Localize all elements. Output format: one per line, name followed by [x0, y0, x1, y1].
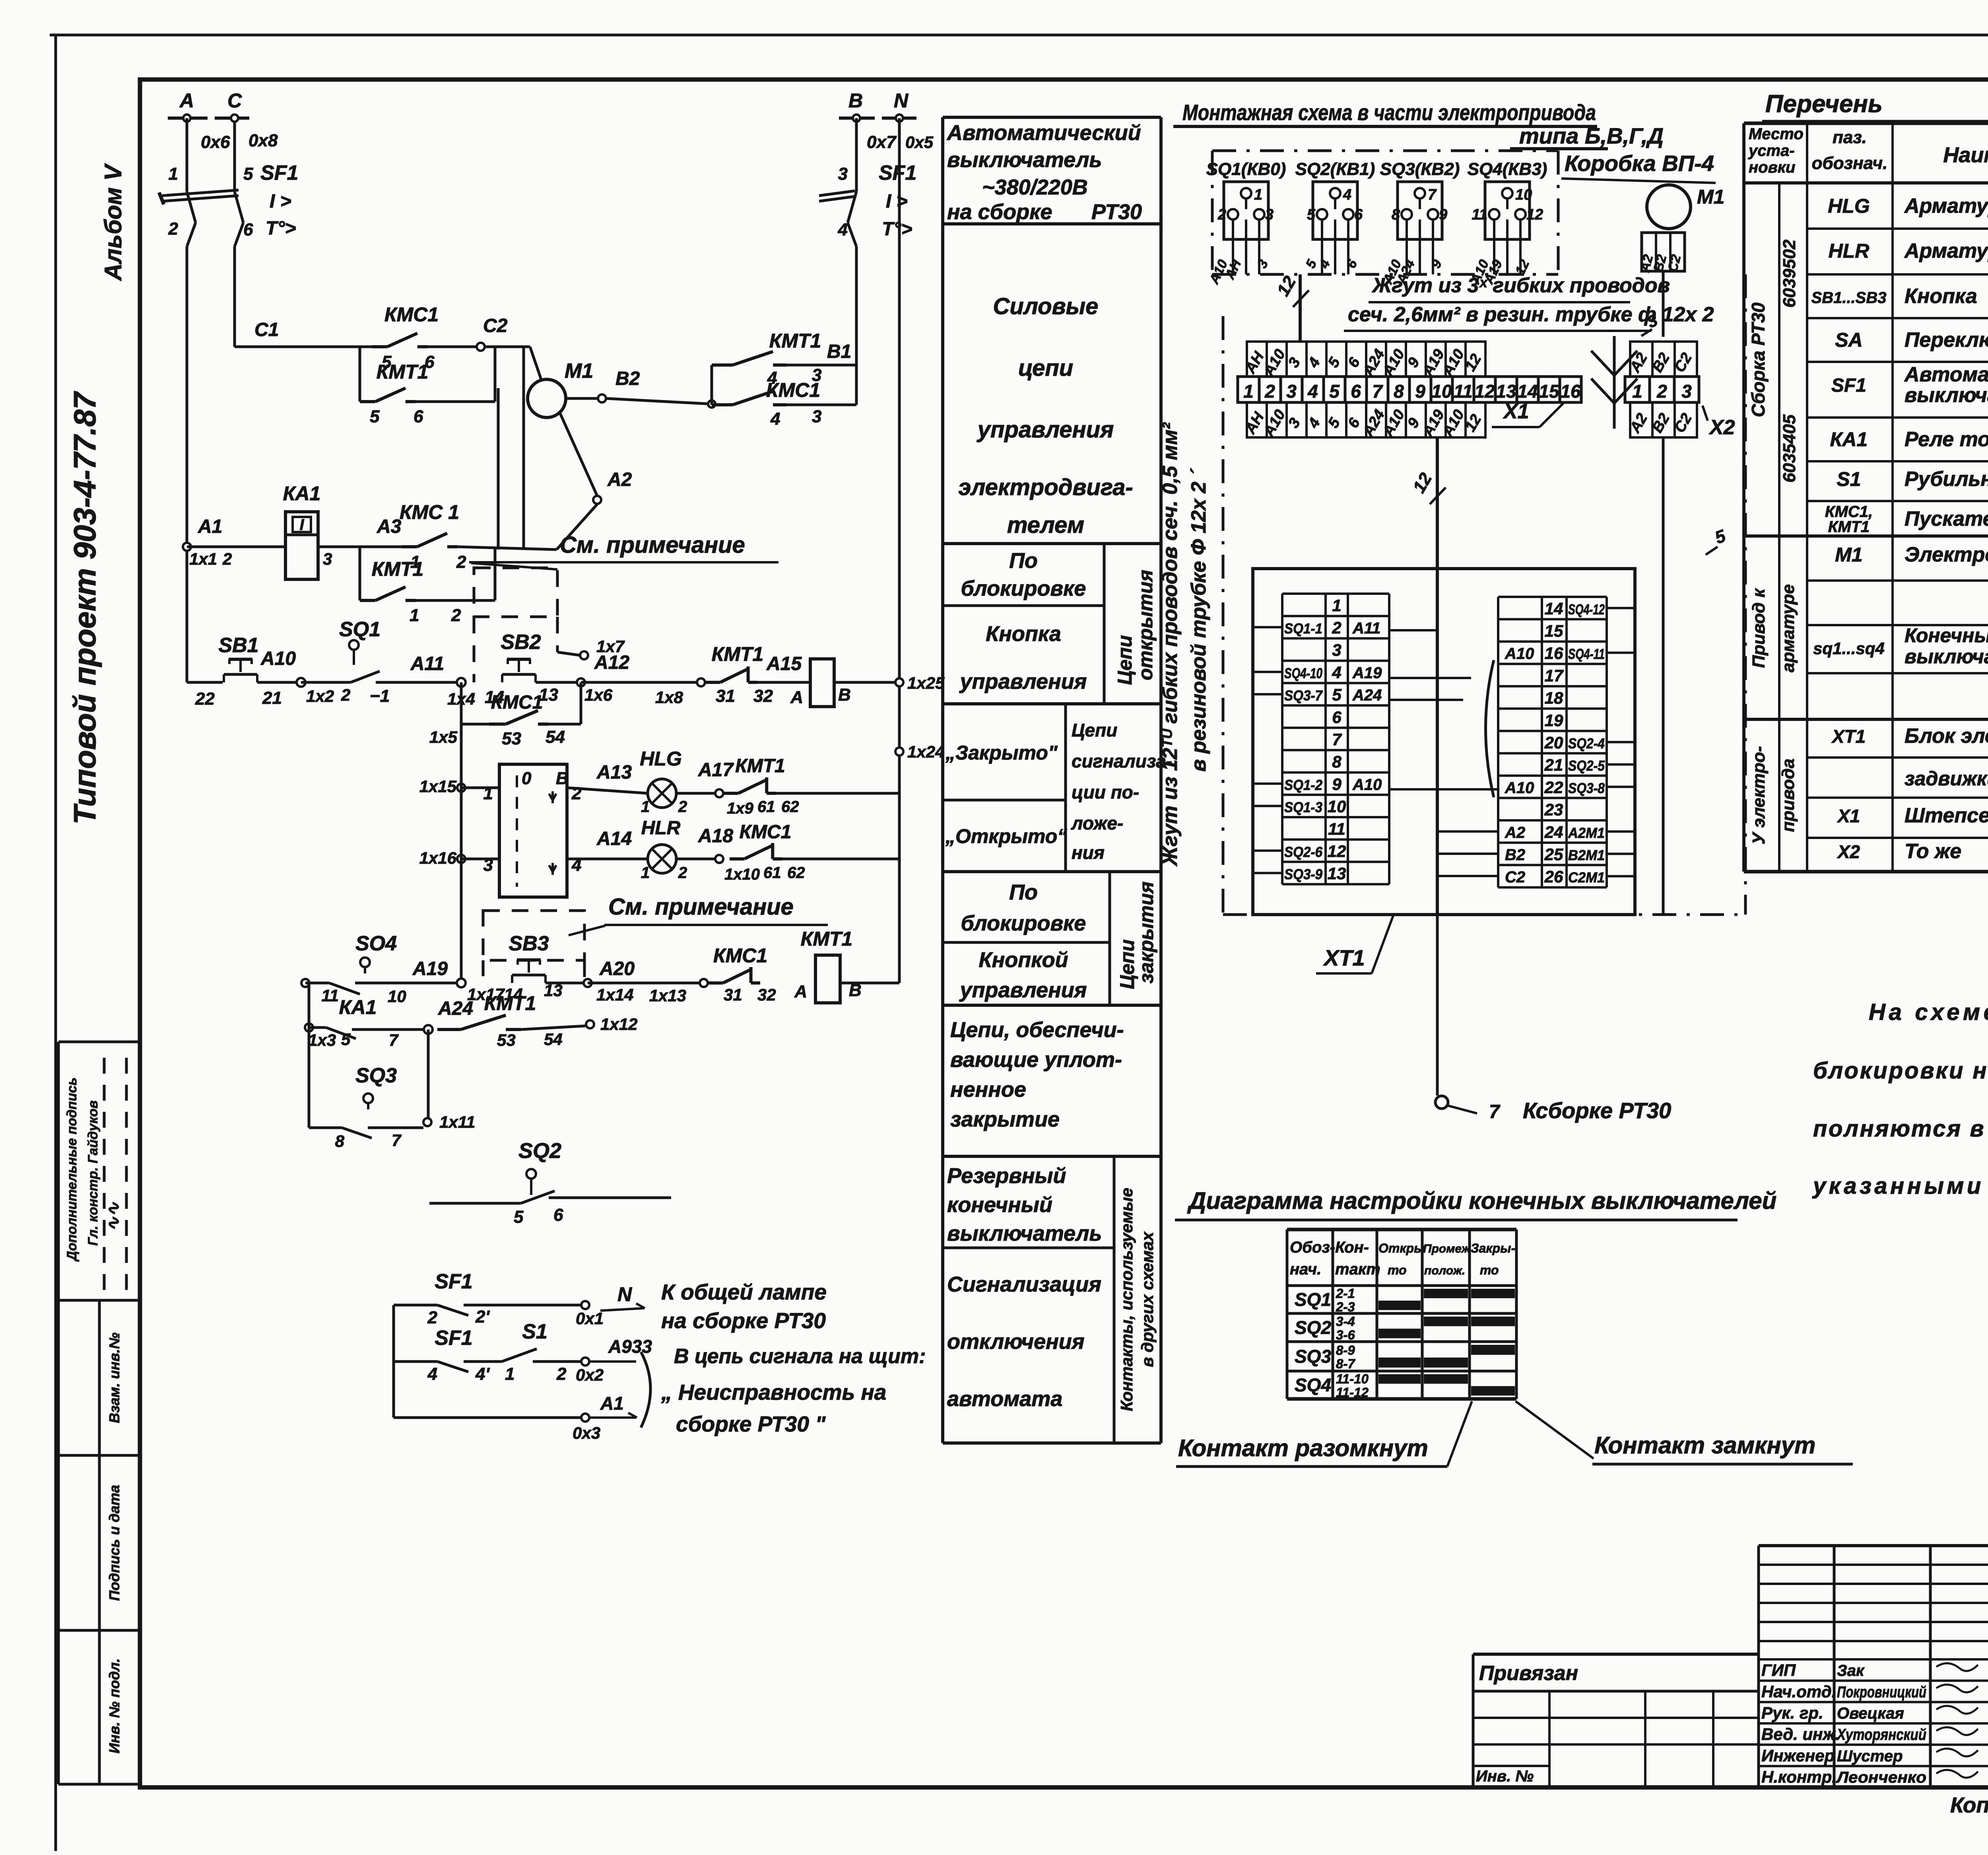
svg-text:6: 6 — [1351, 381, 1361, 402]
svg-text:новки: новки — [1749, 159, 1795, 176]
svg-text:I >: I > — [270, 191, 291, 212]
svg-text:2-3: 2-3 — [1336, 1299, 1355, 1314]
svg-text:2: 2 — [456, 552, 466, 572]
svg-text:Копировал Перелюбская: Копировал Перелюбская — [1950, 1793, 1988, 1817]
svg-text:„Закрыто": „Закрыто" — [945, 742, 1058, 764]
svg-text:уста-: уста- — [1748, 142, 1795, 159]
svg-text:задвижки: задвижки — [1905, 767, 1988, 790]
svg-text:2: 2 — [168, 219, 179, 239]
svg-text:А19: А19 — [412, 958, 448, 979]
svg-text:32: 32 — [757, 985, 776, 1004]
svg-text:8-7: 8-7 — [1336, 1356, 1355, 1371]
svg-text:2: 2 — [341, 686, 350, 704]
svg-text:в резиновой трубке Ф 12: в резиновой трубке Ф 12x 2 ´ — [1187, 468, 1210, 772]
svg-text:сигнализа-: сигнализа- — [1072, 751, 1172, 771]
svg-text:I: I — [299, 516, 304, 534]
svg-text:Электродвигатель: Электродвигатель — [1905, 543, 1988, 566]
svg-text:6: 6 — [1332, 708, 1342, 726]
svg-text:22: 22 — [1544, 778, 1563, 796]
svg-text:ции по-: ции по- — [1072, 782, 1139, 802]
svg-text:блокировке: блокировке — [961, 577, 1086, 600]
svg-text:2: 2 — [1264, 381, 1275, 402]
svg-text:0x8: 0x8 — [248, 131, 278, 150]
svg-text:„Открыто“: „Открыто“ — [945, 825, 1067, 847]
svg-text:1x2: 1x2 — [306, 687, 334, 705]
svg-text:Привод к: Привод к — [1749, 588, 1769, 668]
svg-text:SQ4-11: SQ4-11 — [1568, 646, 1605, 662]
svg-text:В2: В2 — [615, 368, 640, 389]
svg-text:такт: такт — [1335, 1261, 1380, 1278]
svg-text:1: 1 — [410, 606, 419, 625]
svg-text:SВ1...SВ3: SВ1...SВ3 — [1811, 289, 1887, 307]
svg-text:I >: I > — [886, 191, 908, 212]
svg-text:М1: М1 — [1835, 544, 1862, 566]
svg-text:конечный: конечный — [947, 1193, 1052, 1217]
svg-text:А19: А19 — [1352, 664, 1382, 682]
svg-text:1: 1 — [505, 1364, 514, 1384]
svg-text:SF1: SF1 — [1831, 375, 1866, 396]
svg-text:SQ2-6: SQ2-6 — [1284, 844, 1323, 860]
svg-text:А2: А2 — [607, 469, 632, 490]
svg-text:электродвига-: электродвига- — [958, 474, 1133, 500]
svg-text:Переключатель: Переключатель — [1905, 328, 1988, 352]
svg-text:11: 11 — [321, 986, 339, 1005]
svg-text:2: 2 — [1332, 618, 1341, 637]
svg-text:9: 9 — [1439, 206, 1447, 223]
svg-text:ХТ1: ХТ1 — [1831, 726, 1866, 747]
svg-text:2': 2' — [475, 1307, 490, 1327]
svg-text:3: 3 — [1332, 641, 1341, 659]
svg-text:1x10: 1x10 — [724, 866, 760, 883]
svg-text:0x3: 0x3 — [573, 1424, 600, 1442]
svg-text:В: В — [838, 685, 851, 705]
svg-text:0x7: 0x7 — [867, 132, 897, 152]
svg-text:13: 13 — [1496, 381, 1516, 402]
svg-text:S1: S1 — [522, 1320, 547, 1343]
svg-text:SQ4-12: SQ4-12 — [1568, 601, 1605, 618]
svg-text:12: 12 — [1328, 842, 1346, 860]
svg-text:S1: S1 — [1837, 468, 1861, 490]
svg-text:SF1: SF1 — [435, 1270, 472, 1293]
svg-text:А: А — [790, 688, 803, 707]
svg-text:В: В — [848, 89, 863, 112]
svg-text:А11: А11 — [410, 653, 445, 674]
svg-text:Реле токовое: Реле токовое — [1905, 428, 1988, 451]
svg-text:Коробка ВП-4: Коробка ВП-4 — [1565, 151, 1714, 176]
svg-text:8: 8 — [335, 1132, 345, 1150]
svg-text:4: 4 — [1307, 381, 1318, 402]
svg-text:SF1: SF1 — [260, 161, 298, 185]
svg-text:КМС1: КМС1 — [740, 822, 792, 843]
svg-text:К общей лампе: К общей лампе — [661, 1280, 827, 1304]
svg-text:11-12: 11-12 — [1336, 1385, 1369, 1400]
svg-text:Леонченко: Леонченко — [1836, 1769, 1926, 1786]
svg-text:А24: А24 — [1352, 687, 1382, 704]
svg-text:HLG: HLG — [640, 748, 682, 770]
svg-text:3: 3 — [812, 407, 821, 426]
svg-text:С2: С2 — [1505, 868, 1525, 886]
svg-text:SQ3-9: SQ3-9 — [1284, 866, 1322, 882]
svg-text:31: 31 — [724, 985, 742, 1004]
svg-text:Кнопкой: Кнопкой — [978, 948, 1068, 972]
svg-text:SF1: SF1 — [435, 1327, 472, 1350]
svg-text:HLR: HLR — [641, 818, 681, 839]
svg-text:КМТ1: КМТ1 — [372, 558, 424, 580]
svg-text:Инв. № подл.: Инв. № подл. — [106, 1658, 122, 1753]
svg-text:Обоз-: Обоз- — [1290, 1239, 1335, 1256]
svg-text:КМТ1: КМТ1 — [801, 928, 853, 950]
svg-text:полняются в соответствии со: полняются в соответствии со схемами блок… — [1813, 1116, 1988, 1142]
svg-text:1x12: 1x12 — [600, 1015, 637, 1033]
svg-text:КА1: КА1 — [339, 996, 377, 1018]
svg-text:2: 2 — [556, 1364, 567, 1384]
svg-text:Арматура: Арматура — [1904, 194, 1988, 218]
svg-text:выключатель: выключатель — [1905, 384, 1988, 407]
svg-text:А2М1: А2М1 — [1568, 825, 1605, 841]
svg-text:КМТ1: КМТ1 — [377, 361, 429, 383]
svg-text:КМС1: КМС1 — [713, 944, 767, 967]
svg-text:В: В — [556, 769, 569, 788]
svg-text:Арматура: Арматура — [1904, 239, 1988, 262]
svg-text:Х1: Х1 — [1837, 806, 1860, 826]
svg-text:НLR: НLR — [1829, 240, 1870, 262]
svg-text:1x7: 1x7 — [596, 637, 625, 656]
svg-text:2: 2 — [571, 784, 582, 803]
svg-text:А14: А14 — [596, 828, 632, 849]
svg-text:5: 5 — [243, 164, 253, 184]
svg-text:6039502: 6039502 — [1780, 239, 1799, 308]
svg-text:привода: привода — [1778, 759, 1798, 832]
svg-text:X2: X2 — [1708, 416, 1735, 439]
svg-text:53: 53 — [497, 1031, 516, 1049]
svg-text:1x8: 1x8 — [655, 688, 683, 707]
svg-text:указанными в перечне запорн: указанными в перечне запорной арматуры. — [1812, 1173, 1988, 1199]
svg-text:КМТ1: КМТ1 — [712, 643, 764, 665]
svg-text:Кнопка: Кнопка — [1905, 285, 1977, 308]
svg-text:См. примечание: См. примечание — [560, 532, 745, 558]
svg-text:20: 20 — [1544, 733, 1563, 752]
svg-text:~380/220В: ~380/220В — [982, 175, 1088, 199]
svg-text:54: 54 — [546, 727, 565, 747]
svg-text:на сборке: на сборке — [947, 200, 1052, 224]
svg-text:7: 7 — [1332, 730, 1342, 749]
svg-text:2: 2 — [678, 864, 687, 882]
svg-text:ния: ния — [1072, 842, 1105, 863]
svg-text:3-6: 3-6 — [1336, 1328, 1355, 1342]
svg-text:11: 11 — [1328, 820, 1345, 838]
svg-text:1x3: 1x3 — [308, 1031, 336, 1049]
svg-text:3-4: 3-4 — [1336, 1314, 1355, 1329]
svg-text:7: 7 — [1428, 186, 1437, 203]
svg-text:то: то — [1388, 1263, 1407, 1277]
svg-text:Диаграмма настройки: Диаграмма настройки конечных выключателе… — [1187, 1187, 1776, 1214]
svg-text:4: 4 — [1332, 663, 1341, 682]
svg-text:С1: С1 — [254, 319, 279, 340]
svg-text:2: 2 — [1217, 206, 1226, 223]
svg-text:7: 7 — [389, 1031, 399, 1049]
svg-text:По: По — [1009, 880, 1038, 904]
svg-text:SВ1: SВ1 — [218, 634, 258, 657]
svg-text:SQ4(КВ3): SQ4(КВ3) — [1468, 159, 1547, 179]
svg-text:паз.: паз. — [1833, 128, 1867, 147]
svg-text:управления: управления — [977, 417, 1114, 443]
svg-text:Шустер: Шустер — [1837, 1747, 1903, 1765]
svg-text:закрытие: закрытие — [950, 1107, 1060, 1131]
svg-text:Подпись и дата: Подпись и дата — [106, 1485, 122, 1601]
svg-text:SQ3: SQ3 — [1295, 1346, 1331, 1367]
svg-text:Нач.отд.: Нач.отд. — [1761, 1682, 1836, 1701]
svg-text:открытия: открытия — [1134, 570, 1157, 680]
svg-text:1: 1 — [1254, 186, 1262, 203]
svg-text:Блок электропривода: Блок электропривода — [1905, 725, 1988, 748]
svg-text:8: 8 — [1332, 752, 1342, 771]
svg-text:1x16: 1x16 — [419, 849, 457, 867]
svg-text:Альбом V: Альбом V — [100, 163, 126, 281]
svg-text:7: 7 — [1489, 1101, 1501, 1123]
svg-text:1: 1 — [1243, 381, 1254, 402]
svg-text:0x2: 0x2 — [576, 1366, 604, 1384]
svg-text:SQ2: SQ2 — [1295, 1317, 1331, 1338]
svg-text:См. примечание: См. примечание — [608, 894, 794, 920]
svg-text:РТ30: РТ30 — [1091, 200, 1142, 224]
svg-text:−1: −1 — [370, 686, 390, 706]
svg-text:КМС1: КМС1 — [766, 379, 820, 401]
svg-text:3: 3 — [1265, 206, 1274, 223]
svg-text:Цепи: Цепи — [1114, 635, 1136, 685]
svg-text:X1: X1 — [1503, 400, 1529, 423]
svg-text:Привязан: Привязан — [1479, 1662, 1578, 1685]
svg-text:А20: А20 — [599, 958, 635, 979]
svg-text:Контакт замкнут: Контакт замкнут — [1594, 1432, 1815, 1459]
svg-text:М1: М1 — [565, 359, 593, 383]
svg-text:ГИП: ГИП — [1761, 1661, 1796, 1680]
svg-text:Жгут из 12ᵀᵁ гибких провод: Жгут из 12ᵀᵁ гибких проводов сеч. 0,5 мм… — [1159, 422, 1182, 867]
svg-text:Резервный: Резервный — [947, 1164, 1066, 1188]
svg-text:обознач.: обознач. — [1812, 153, 1888, 173]
svg-text:нач.: нач. — [1290, 1261, 1321, 1278]
svg-text:управления: управления — [959, 670, 1087, 693]
svg-text:11: 11 — [1472, 206, 1487, 223]
svg-text:8: 8 — [1392, 206, 1400, 223]
svg-text:Автоматический: Автоматический — [1904, 363, 1988, 386]
svg-text:Сигнализация: Сигнализация — [947, 1272, 1101, 1296]
svg-text:телем: телем — [1007, 512, 1084, 538]
svg-text:КМТ1: КМТ1 — [735, 756, 785, 777]
svg-text:1x13: 1x13 — [649, 986, 686, 1005]
svg-text:10: 10 — [1515, 186, 1532, 203]
svg-text:7: 7 — [1372, 381, 1383, 402]
svg-text:8: 8 — [1394, 381, 1404, 402]
svg-text:А: А — [794, 982, 807, 1001]
svg-text:В2М1: В2М1 — [1568, 847, 1605, 863]
svg-text:Кон-: Кон- — [1335, 1239, 1369, 1256]
svg-text:А10: А10 — [1505, 779, 1534, 796]
svg-text:14: 14 — [1545, 599, 1563, 618]
svg-text:SQ4: SQ4 — [1295, 1375, 1331, 1395]
svg-text:6035405: 6035405 — [1780, 414, 1799, 483]
svg-text:SQ2(КВ1): SQ2(КВ1) — [1295, 159, 1375, 179]
svg-text:Гл. констр. Гайдуков: Гл. констр. Гайдуков — [85, 1100, 101, 1246]
svg-text:∿∿: ∿∿ — [104, 1202, 123, 1231]
svg-text:61: 61 — [763, 864, 781, 882]
svg-text:SQ3-7: SQ3-7 — [1284, 688, 1323, 704]
svg-text:А3: А3 — [377, 516, 402, 537]
svg-text:2: 2 — [678, 798, 687, 816]
svg-text:Ксборке РТ30: Ксборке РТ30 — [1523, 1098, 1671, 1123]
svg-text:выключатель: выключатель — [1905, 645, 1988, 668]
svg-text:1x25: 1x25 — [907, 674, 945, 692]
svg-text:А18: А18 — [698, 826, 733, 847]
svg-text:4': 4' — [475, 1364, 490, 1384]
svg-text:15: 15 — [1539, 381, 1560, 402]
svg-text:53: 53 — [502, 729, 521, 748]
svg-text:Рук. гр.: Рук. гр. — [1761, 1703, 1823, 1722]
svg-text:61: 61 — [757, 798, 775, 816]
svg-text:SQ3: SQ3 — [355, 1064, 397, 1087]
svg-text:Н.контр.: Н.контр. — [1761, 1768, 1837, 1786]
svg-text:полож.: полож. — [1424, 1264, 1465, 1277]
svg-text:N: N — [617, 1283, 632, 1305]
svg-text:14: 14 — [1517, 381, 1538, 402]
svg-text:Откры: Откры — [1378, 1241, 1425, 1255]
svg-text:11-10: 11-10 — [1336, 1371, 1369, 1386]
svg-text:4: 4 — [427, 1364, 437, 1384]
svg-text:А24: А24 — [438, 998, 473, 1019]
svg-text:1x15: 1x15 — [419, 777, 457, 796]
svg-text:2: 2 — [222, 550, 232, 568]
svg-text:15: 15 — [1545, 622, 1563, 640]
svg-text:5: 5 — [370, 407, 380, 426]
svg-text:КМТ1: КМТ1 — [1828, 518, 1870, 536]
svg-text:А10: А10 — [1505, 645, 1534, 662]
svg-text:SВ3: SВ3 — [509, 932, 549, 955]
svg-text:1: 1 — [1632, 381, 1642, 402]
svg-text:блокировки на открытие и з: блокировки на открытие и закрытие , кото… — [1813, 1058, 1988, 1084]
svg-text:В2: В2 — [1505, 846, 1525, 864]
svg-text:А11: А11 — [1352, 620, 1380, 637]
svg-text:Дополнительные подпись: Дополнительные подпись — [64, 1078, 80, 1262]
svg-text:3: 3 — [1681, 381, 1692, 402]
svg-text:12: 12 — [1526, 206, 1543, 223]
svg-text:Пускатель: Пускатель — [1905, 507, 1988, 530]
svg-text:22: 22 — [195, 689, 215, 709]
svg-text:автомата: автомата — [947, 1387, 1062, 1411]
svg-text:2: 2 — [451, 606, 461, 625]
svg-text:С2М1: С2М1 — [1568, 869, 1605, 886]
svg-text:21: 21 — [262, 688, 282, 708]
svg-text:Контакты, используемые: Контакты, используемые — [1117, 1188, 1136, 1411]
svg-text:типа Б,В,Г,Д: типа Б,В,Г,Д — [1519, 123, 1664, 148]
svg-text:3: 3 — [838, 164, 848, 184]
svg-text:Силовые: Силовые — [993, 293, 1099, 319]
svg-text:1x14: 1x14 — [596, 985, 633, 1004]
svg-text:1x5: 1x5 — [429, 728, 458, 746]
svg-text:6: 6 — [414, 407, 423, 426]
svg-text:А1: А1 — [198, 516, 222, 537]
svg-text:SQ4-10: SQ4-10 — [1284, 665, 1322, 681]
svg-text:Штепсельный разъем: Штепсельный разъем — [1905, 804, 1988, 827]
svg-text:КМТ1: КМТ1 — [769, 330, 821, 352]
svg-text:5: 5 — [1332, 686, 1342, 704]
svg-text:32: 32 — [753, 686, 773, 706]
svg-text:5: 5 — [514, 1207, 524, 1227]
svg-text:SQ1: SQ1 — [1295, 1289, 1331, 1310]
svg-text:Цепи: Цепи — [1072, 720, 1117, 740]
svg-text:КА1: КА1 — [1830, 428, 1868, 451]
svg-text:сборке РТ30 ": сборке РТ30 " — [676, 1412, 826, 1436]
svg-text:блокировке: блокировке — [961, 911, 1086, 935]
svg-text:С: С — [227, 89, 242, 112]
svg-text:18: 18 — [1545, 689, 1563, 707]
svg-text:Перечень: Перечень — [1765, 90, 1883, 118]
svg-text:8-9: 8-9 — [1336, 1343, 1355, 1358]
svg-text:в других схемах: в других схемах — [1138, 1231, 1157, 1367]
svg-text:Т°>: Т°> — [266, 218, 296, 239]
svg-text:1: 1 — [641, 798, 650, 816]
svg-text:С2: С2 — [483, 315, 508, 336]
svg-text:КМС1: КМС1 — [491, 692, 543, 713]
svg-text:SQ2: SQ2 — [518, 1139, 561, 1163]
svg-text:А17: А17 — [698, 759, 734, 781]
svg-text:Покровницкий: Покровницкий — [1837, 1683, 1926, 1701]
svg-text:Контакт разомкнут: Контакт разомкнут — [1178, 1435, 1428, 1461]
svg-text:SО4: SО4 — [355, 932, 397, 955]
svg-text:SQ1-2: SQ1-2 — [1284, 777, 1322, 793]
svg-text:SQ3(КВ2): SQ3(КВ2) — [1380, 159, 1460, 179]
svg-text:SВ2: SВ2 — [501, 631, 541, 654]
svg-text:0x6: 0x6 — [201, 132, 230, 152]
svg-text:Хуторянский: Хуторянский — [1836, 1726, 1926, 1744]
svg-text:6: 6 — [553, 1205, 563, 1225]
svg-text:21: 21 — [1544, 756, 1563, 774]
svg-text:2: 2 — [427, 1308, 438, 1327]
svg-text:выключатель: выключатель — [947, 1222, 1102, 1245]
svg-text:закрытия: закрытия — [1135, 882, 1157, 983]
svg-text:ХТ1: ХТ1 — [1323, 945, 1365, 970]
svg-text:выключатель: выключатель — [947, 148, 1102, 172]
svg-text:SF1: SF1 — [879, 161, 916, 185]
svg-text:Взам. инв.№: Взам. инв.№ — [106, 1332, 122, 1423]
svg-text:5: 5 — [1307, 206, 1316, 223]
svg-text:0: 0 — [522, 769, 532, 788]
svg-text:SQ2-5: SQ2-5 — [1568, 758, 1605, 774]
svg-text:7: 7 — [392, 1131, 402, 1150]
svg-text:Цепи, обеспечи-: Цепи, обеспечи- — [950, 1018, 1124, 1042]
svg-text:цепи: цепи — [1018, 355, 1073, 381]
svg-text:10: 10 — [1431, 381, 1452, 402]
svg-text:Автоматический: Автоматический — [946, 121, 1141, 145]
svg-text:17: 17 — [1545, 666, 1564, 685]
svg-text:1: 1 — [169, 164, 178, 184]
svg-text:54: 54 — [544, 1030, 563, 1049]
svg-text:А933: А933 — [608, 1336, 652, 1357]
svg-text:ложе-: ложе- — [1071, 813, 1123, 833]
svg-text:62: 62 — [781, 798, 799, 816]
svg-text:У электро-: У электро- — [1749, 746, 1769, 844]
svg-text:А2: А2 — [1505, 824, 1525, 841]
svg-text:1x11: 1x11 — [439, 1113, 475, 1131]
svg-text:4: 4 — [838, 220, 848, 239]
svg-text:2-1: 2-1 — [1336, 1286, 1355, 1301]
svg-text:SА: SА — [1835, 329, 1862, 351]
svg-text:31: 31 — [716, 686, 735, 706]
svg-text:SQ2-4: SQ2-4 — [1568, 735, 1605, 752]
svg-text:Инв. №: Инв. № — [1476, 1768, 1534, 1785]
svg-text:23: 23 — [1544, 800, 1563, 819]
svg-text:КА1: КА1 — [283, 482, 321, 505]
svg-text:16: 16 — [1560, 381, 1581, 402]
svg-text:6: 6 — [1354, 206, 1363, 223]
